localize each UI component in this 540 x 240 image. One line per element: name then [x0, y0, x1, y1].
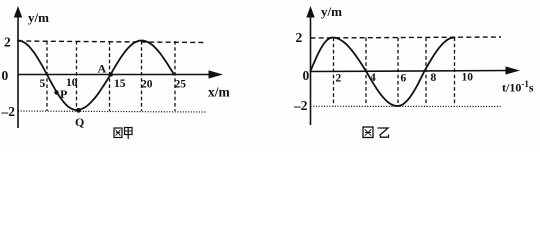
dotted level line y=-2: [18, 111, 206, 112]
svg-text:5: 5: [40, 78, 46, 90]
svg-text:0: 0: [303, 68, 310, 83]
dashed level line y=+2: [311, 37, 502, 38]
wave curve y-x (cosine): [18, 41, 174, 111]
svg-text:10: 10: [66, 77, 78, 89]
svg-text:8: 8: [431, 72, 437, 84]
y-axis arrowhead: [14, 6, 22, 18]
vertical dashed gridline x=25: [174, 41, 176, 111]
vertical dashed gridline x=5: [46, 41, 48, 111]
svg-text:25: 25: [175, 79, 187, 91]
t-axis arrowhead: [506, 66, 521, 74]
y-axis: [310, 14, 312, 125]
x-axis: [18, 74, 212, 76]
dashed level line y=+2: [18, 41, 204, 43]
vertical dashed gridline t=10: [454, 38, 456, 107]
svg-text:10: 10: [462, 72, 474, 84]
t-axis: [311, 71, 510, 72]
caption glyph jia (left figure): [125, 128, 133, 140]
dotted level line y=-2: [311, 105, 502, 107]
svg-text:2: 2: [296, 30, 303, 45]
svg-text:P: P: [60, 87, 67, 101]
svg-text:x/m: x/m: [208, 85, 231, 100]
svg-text:20: 20: [141, 79, 153, 91]
wave curve y-t (sine): [311, 38, 455, 107]
y-axis arrowhead: [306, 6, 314, 18]
caption glyph tu (right figure): [363, 127, 373, 138]
point P dot: [54, 90, 58, 94]
vertical dashed gridline t=4: [365, 38, 367, 107]
vertical dashed gridline x=15: [109, 41, 111, 111]
svg-text:y/m: y/m: [321, 4, 342, 19]
caption glyph yi (right figure): [378, 128, 389, 137]
vertical dashed gridline t=6: [397, 38, 399, 107]
svg-text:y/m: y/m: [28, 10, 49, 25]
vertical dashed gridline t=2: [333, 38, 335, 107]
svg-text:A: A: [98, 62, 107, 76]
svg-text:–2: –2: [293, 98, 308, 113]
svg-text:Q: Q: [75, 115, 84, 129]
vertical dashed gridline x=20: [141, 41, 143, 111]
point A dot: [109, 72, 113, 76]
svg-text:15: 15: [114, 78, 126, 90]
svg-text:6: 6: [401, 73, 407, 85]
y-axis: [17, 14, 19, 128]
vertical dashed gridline x=10: [76, 41, 78, 111]
svg-text:2: 2: [336, 73, 342, 85]
svg-text:2: 2: [4, 35, 11, 50]
x-axis arrowhead: [209, 70, 224, 78]
vertical dashed gridline t=8: [425, 38, 427, 107]
point Q dot: [76, 108, 81, 113]
svg-text:0: 0: [2, 68, 9, 83]
svg-text:t/10-1s: t/10-1s: [502, 79, 534, 95]
caption glyph tu (left figure): [114, 128, 122, 138]
svg-text:–2: –2: [1, 104, 16, 119]
